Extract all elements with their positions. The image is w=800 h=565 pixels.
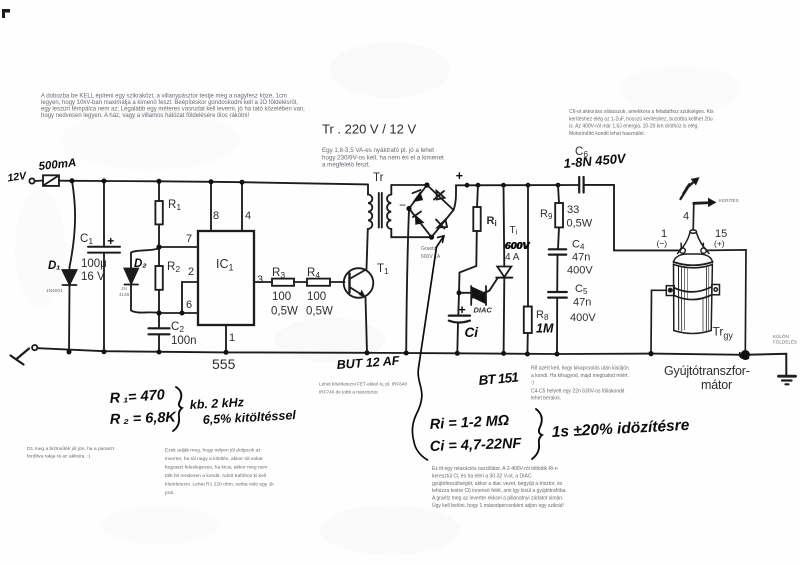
- svg-text:is. Az 400V-ról már 1,6J energ: is. Az 400V-ról már 1,6J energia, 10-20 …: [569, 124, 699, 130]
- lightning spark arrow: [681, 182, 695, 200]
- COIL: [651, 178, 796, 384]
- capacitor C4 47n 400V: [549, 249, 566, 291]
- svg-text:a kondi. Ha kihagyod, majd meg: a kondi. Ha kihagyod, majd megtudod miér…: [531, 373, 629, 379]
- resistor R8 1M: [524, 185, 532, 354]
- svg-text:0,5W: 0,5W: [567, 218, 593, 230]
- svg-text:D₂: D₂: [134, 258, 147, 270]
- transformer core: [378, 193, 380, 228]
- svg-text:100n: 100n: [171, 335, 197, 347]
- coil bottom: [674, 331, 711, 334]
- svg-text:Egy 1,8-3,5 VA-es nyáktrafó pl: Egy 1,8-3,5 VA-es nyáktrafó pl. jó a leh…: [322, 147, 434, 154]
- note: transformer paragraph: [322, 147, 444, 169]
- svg-text:16 V: 16 V: [81, 271, 105, 283]
- capacitor C5 47n 400V: [548, 292, 567, 354]
- svg-text:A graetz meg az inverter ekkse: A graetz meg az inverter ekksei a pillan…: [432, 496, 563, 502]
- svg-text:7: 7: [186, 233, 192, 245]
- svg-text:egy leszúrt fémpálca nem az: L: egy leszúrt fémpálca nem az: Legalább eg…: [41, 107, 305, 113]
- note: FET paragraph: [319, 382, 407, 395]
- svg-text:1N4001: 1N4001: [46, 288, 63, 294]
- svg-text:fogyaszt feleslegesen, ha kics: fogyaszt feleslegesen, ha kicsi, akkor m…: [165, 465, 267, 471]
- wire: secondary top to bridge: [391, 184, 427, 186]
- LEFTCIRCUIT: [11, 175, 746, 364]
- coil top dome: [673, 254, 712, 262]
- junction dots left: [67, 178, 245, 354]
- ground terminal: [32, 345, 37, 350]
- svg-text:0,5W: 0,5W: [306, 306, 333, 318]
- svg-text:KÜLÖN: KÜLÖN: [773, 333, 789, 339]
- svg-text:D1 meg a biztosíték jól jön, h: D1 meg a biztosíték jól jön, ha a parasz…: [27, 446, 115, 452]
- ground symbol right: [779, 375, 796, 378]
- junction dots coil: [648, 350, 750, 359]
- svg-text:Úgy kell belöni, hogy 1 másodp: Úgy kell belöni, hogy 1 másodpercenként …: [432, 502, 564, 509]
- resistor Ri: [459, 185, 481, 293]
- note: Graetz rating: [421, 246, 441, 260]
- svg-text:kb. 2 kHz: kb. 2 kHz: [189, 395, 245, 412]
- svg-text:+: +: [456, 169, 464, 183]
- coil bolt terminal 15: [701, 248, 706, 253]
- wire: bridge plus up to rail: [454, 185, 457, 210]
- resistor R4 100 0,5W: [307, 279, 330, 286]
- junction dots mid: [365, 182, 561, 355]
- svg-text:Ci: Ci: [465, 325, 479, 340]
- svg-text:600V: 600V: [505, 240, 531, 252]
- svg-text:inverter, ha túl nagy a kitölt: inverter, ha túl nagy a kitöltés, akkor …: [165, 456, 263, 462]
- svg-text:Ez itt egy relaxációs oszcillá: Ez itt egy relaxációs oszcillátor. A 2-4…: [432, 466, 558, 472]
- arrow to fence (KERITES): [694, 201, 711, 204]
- svg-text:600V 1A: 600V 1A: [421, 254, 441, 260]
- resistor R1: [155, 181, 162, 247]
- svg-text:hogy 230/9V-os kell, ha nem ér: hogy 230/9V-os kell, ha nem éri el a kim…: [322, 154, 444, 161]
- bridge rectifier Graetz 600V 1A: [409, 185, 454, 237]
- wire: top rail left: [59, 181, 368, 185]
- wire: terminal 15 to rail: [707, 250, 746, 355]
- svg-text:3: 3: [257, 274, 263, 286]
- transformer Tr primary winding: [368, 184, 372, 229]
- svg-text:R8 azért kell, hogy kikapcsolá: R8 azért kell, hogy kikapcsolás után kis…: [531, 366, 629, 372]
- svg-text:4: 4: [245, 210, 251, 222]
- svg-text:100: 100: [272, 291, 291, 303]
- svg-text:kísérletezni. Lehet R1 220 ohm: kísérletezni. Lehet R1 220 ohm, sorba ve…: [165, 482, 274, 488]
- svg-text:555: 555: [212, 356, 236, 372]
- svg-text:0,5W: 0,5W: [271, 306, 298, 318]
- svg-text:Motorindító kondit lehet haszn: Motorindító kondit lehet használni.: [569, 131, 645, 137]
- DIAC: [459, 286, 486, 305]
- svg-text:Ti: Ti: [510, 225, 518, 237]
- wire: pin 1: [225, 325, 227, 352]
- thyristor Ti anode wire: [503, 185, 506, 266]
- svg-text:4: 4: [683, 211, 689, 223]
- svg-text:6: 6: [186, 299, 192, 311]
- wire R4 to T1 base: [330, 281, 345, 283]
- svg-text:hogy nedvesen legyen. A ház, v: hogy nedvesen legyen. A ház, vagy a vill…: [41, 113, 249, 119]
- svg-text:kerítéshez elég az 1-2uF, hoss: kerítéshez elég az 1-2uF, hosszú kerítés…: [569, 116, 713, 122]
- big blob junction: [741, 350, 750, 359]
- svg-text:fordítva rakja rá az akksira.: fordítva rakja rá az akksira. :): [27, 454, 90, 460]
- svg-text:gyújtófeszültségét, akkor a di: gyújtófeszültségét, akkor a diac vezet, …: [432, 481, 563, 487]
- ignition coil Trgy body: [673, 230, 712, 334]
- thyristor Ti: [487, 267, 513, 354]
- svg-text:C6-ot akkorára válasszuk, amek: C6-ot akkorára válasszuk, amekkora a fel…: [569, 109, 714, 115]
- coil rim band: [673, 262, 712, 265]
- svg-text:47n: 47n: [572, 252, 590, 264]
- svg-text:1: 1: [229, 332, 235, 344]
- wire R3-R4: [294, 281, 307, 283]
- svg-text:1N: 1N: [121, 286, 127, 291]
- svg-text:33: 33: [567, 204, 579, 216]
- svg-text:400V: 400V: [570, 312, 596, 324]
- resistor R2: [155, 247, 162, 313]
- note: D1 fuse paragraph: [27, 446, 115, 460]
- wire: pin 8: [210, 182, 212, 231]
- wire: pin 6: [159, 312, 198, 314]
- note: R8 paragraph: [531, 366, 629, 402]
- svg-text::): :): [531, 380, 534, 386]
- wire: pin 3 to R3: [254, 281, 272, 283]
- svg-text:Ci = 4,7-22NF: Ci = 4,7-22NF: [430, 436, 523, 455]
- diode D1 1N4001: [63, 181, 77, 352]
- wire: secondary bottom to bridge: [391, 229, 431, 237]
- svg-text:legyen, hogy 10kV-ban maximálj: legyen, hogy 10kV-ban maximálja a kimenö…: [41, 99, 298, 106]
- svg-text:+: +: [107, 234, 114, 248]
- svg-text:4 A: 4 A: [505, 252, 520, 263]
- junction dots right: [455, 290, 560, 356]
- input terminal: [29, 178, 34, 183]
- capacitor C2 100n: [149, 313, 170, 352]
- svg-text:47n: 47n: [573, 297, 591, 309]
- ground chassis mark: [17, 349, 30, 360]
- corner speck: [2, 9, 10, 18]
- resistor R3 100 0,5W: [272, 279, 294, 286]
- svg-text:A dobozba be KELL építeni egy: A dobozba be KELL építeni egy szikraközt…: [41, 94, 287, 100]
- svg-text:Tr: Tr: [373, 172, 384, 184]
- MIDCIRCUIT: [254, 184, 579, 353]
- fuse F1 500mA: [35, 175, 59, 186]
- svg-text:poti.: poti.: [165, 490, 174, 496]
- capacitor C1 100u 16V: [88, 181, 120, 352]
- note: spark gap paragraph (top left): [41, 94, 305, 120]
- svg-text:Graetz: Graetz: [421, 246, 437, 252]
- coil shading lines: [678, 266, 680, 330]
- ground wire right (KULON FOLDELES): [745, 354, 786, 375]
- svg-text:4148: 4148: [119, 292, 130, 297]
- svg-text:8: 8: [213, 210, 219, 222]
- note: C6 sizing paragraph (top right): [569, 109, 714, 137]
- svg-text:lehúzza testre C6 innensö felé: lehúzza testre C6 innensö felét, ami így…: [432, 488, 567, 494]
- coil bolt terminal 1: [680, 248, 685, 253]
- note: inverter duty paragraph: [165, 448, 274, 497]
- diode Da 1N4148: [125, 249, 160, 314]
- wire: bottom rail: [38, 348, 745, 355]
- svg-text:2: 2: [188, 266, 194, 278]
- bridge diode top-left: [414, 193, 423, 202]
- svg-text:Lehet kísérletezni FET-ekkel i: Lehet kísérletezni FET-ekkel is, pl. IRF…: [319, 382, 407, 387]
- svg-text:mátor: mátor: [701, 378, 732, 392]
- annotation: brace for R1 R2: [173, 387, 182, 431]
- transformer Tr secondary winding: [387, 185, 391, 229]
- coil cylinder sides: [673, 264, 675, 331]
- wire: pin 4: [241, 182, 243, 231]
- svg-text:KERÍTÉS: KERÍTÉS: [719, 197, 739, 203]
- bridge diode top-right: [437, 191, 445, 200]
- svg-text:R ₂ = 6,8K: R ₂ = 6,8K: [110, 410, 178, 428]
- capacitor C6 1-8n 450V: [579, 177, 679, 250]
- annotation: brace for Ri Ci: [532, 409, 542, 459]
- svg-text:100μ: 100μ: [81, 258, 107, 270]
- svg-text:D₁: D₁: [48, 260, 60, 272]
- svg-text:(+): (+): [714, 239, 725, 249]
- note: relaxation oscillator paragraph: [432, 466, 567, 509]
- transistor T1: [344, 229, 374, 353]
- wire: plus rail to C6: [456, 184, 579, 186]
- svg-text:−: −: [399, 198, 406, 212]
- wire: pin 2: [182, 282, 198, 313]
- coil tower/nipple: [690, 230, 697, 233]
- coil mounting bracket: [666, 285, 719, 300]
- svg-text:400V: 400V: [567, 265, 593, 277]
- annotation: curve arrow to oscillator: [412, 236, 444, 460]
- bridge diode bottom-left: [416, 216, 424, 225]
- svg-text:100: 100: [307, 291, 326, 303]
- capacitor Ci: [449, 293, 470, 354]
- label: Gyujtotranszformator: [664, 364, 750, 392]
- svg-text:lehet berakni.: lehet berakni.: [531, 396, 561, 402]
- svg-text:DIAC: DIAC: [474, 306, 493, 315]
- bridge diode bottom-right: [438, 220, 448, 228]
- RIGHTCIRCUIT: [449, 177, 680, 354]
- svg-text:IRF740 de jobb a tranzisztor.: IRF740 de jobb a tranzisztor.: [319, 390, 379, 395]
- resistor R9 33 0,5W: [555, 185, 563, 249]
- wire: bridge minus down to rail: [406, 209, 409, 354]
- svg-text:keresztül Ci, és ha eléri a 30: keresztül Ci, és ha eléri a 30-32 V-ot, …: [432, 473, 532, 479]
- svg-text:C4-C5 helyett egy 22n 630V-os: C4-C5 helyett egy 22n 630V-os fóliakondi…: [531, 389, 625, 395]
- svg-text:a megfelelö feszt.: a megfelelö feszt.: [322, 162, 371, 169]
- wire: bracket to ground rail: [651, 290, 666, 353]
- svg-text:Ezek adják meg, hogy milyen jó: Ezek adják meg, hogy milyen jól dolgozik…: [165, 448, 261, 454]
- svg-text:(−): (−): [657, 239, 668, 249]
- svg-text:FÖLDELÉS: FÖLDELÉS: [773, 339, 797, 345]
- svg-text:+: +: [458, 302, 466, 317]
- note: KULON FOLDELES label: [773, 333, 797, 345]
- wire: terminal 4 riser: [692, 203, 695, 230]
- wire: pin 7: [159, 246, 198, 248]
- svg-text:tölti fel rendesen a kondit. A: tölti fel rendesen a kondit. Adott trafó…: [165, 473, 266, 479]
- svg-text:1M: 1M: [536, 322, 554, 336]
- op-amp/timer IC U1 555 box: [198, 231, 254, 325]
- svg-text:Tr . 220 V / 12 V: Tr . 220 V / 12 V: [322, 122, 417, 137]
- svg-text:Gyújtótranszfor-: Gyújtótranszfor-: [664, 364, 750, 378]
